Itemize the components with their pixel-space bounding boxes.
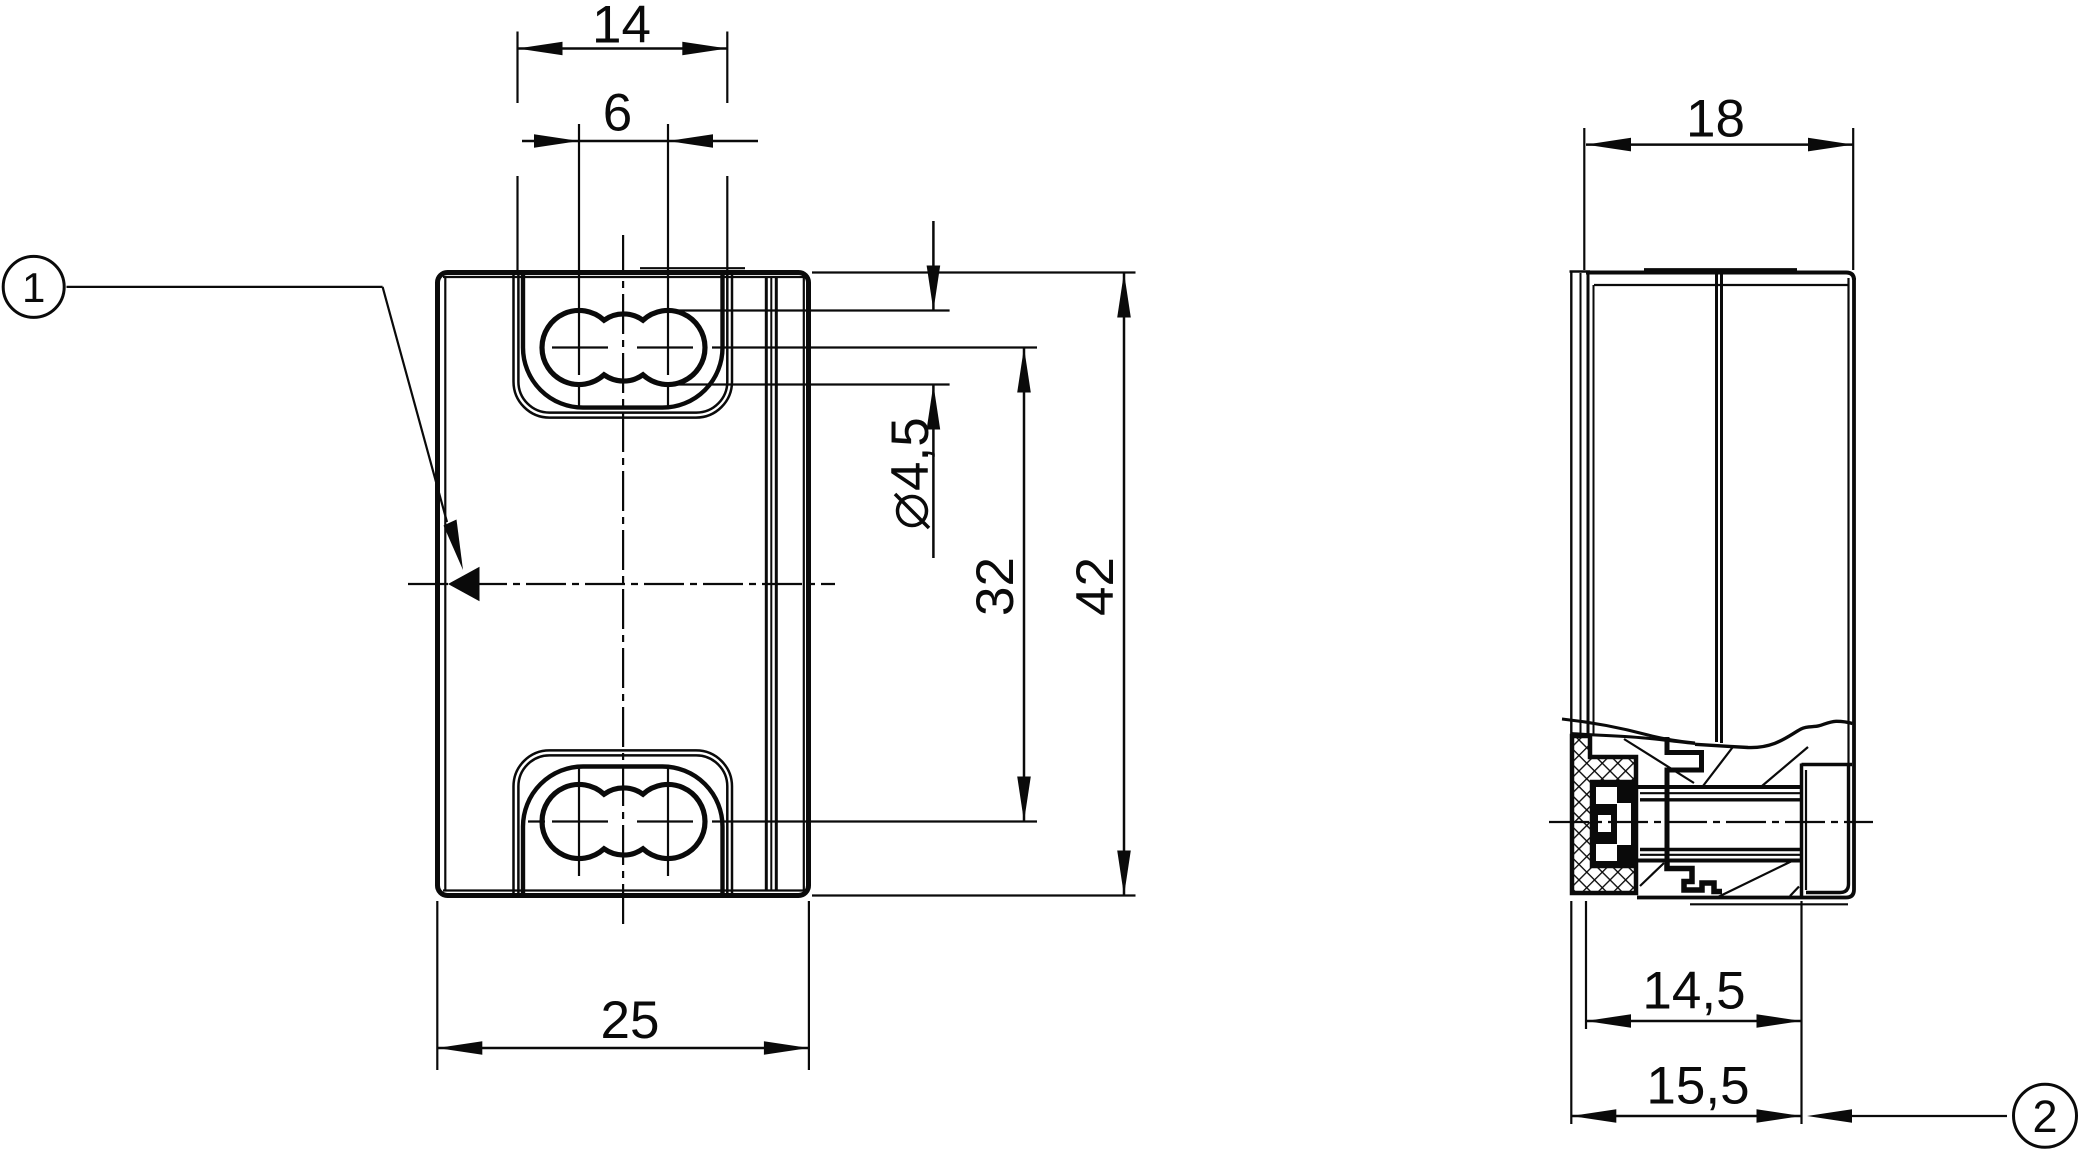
section hatch lower-right [1790,887,1799,897]
svg-text:18: 18 [1686,90,1745,149]
retaining clip meander [1667,861,1722,892]
section hatch upper-mid [1703,746,1734,787]
dim dia4,5 line upper [932,221,935,311]
callout 1 balloon [3,256,64,317]
plug lower edge [1635,859,1801,863]
dim 32 text (rotated) [966,557,1025,616]
bottom hole centerline extension to dim 32 [712,820,1037,822]
dim 42 text (rotated) [1066,557,1125,616]
front view horizontal centerline [408,583,835,585]
seal centre nub window [1598,815,1611,832]
callout 1 leader horizontal [67,286,383,288]
bottom hole axis left [578,768,580,876]
svg-text:1: 1 [22,264,45,311]
dim 25 arrows [437,1041,482,1055]
side view: cap lip top cap [1570,270,1591,272]
callout 2 leader [1845,1115,2007,1117]
dim 6 arrows (outside) [534,134,579,148]
side view: cap lip inner line [1580,273,1582,734]
bottom mounting pocket, main contour [523,767,723,896]
bottom hole centerline segment right [637,820,693,822]
bottom mounting block inner left line [1805,770,1807,890]
plug lower inner line [1640,854,1801,856]
plug upper bore line [1640,798,1801,801]
seal upper notch [1596,787,1617,804]
dim 14 ext line right [726,32,728,104]
front view: raised pocket-mouth edge on top face [640,267,745,269]
side view: right inner line [1847,278,1849,764]
dim 14,5 line [1586,1020,1802,1023]
front view: inner contour right edge [803,277,805,891]
side view: housing parting line b [1720,273,1723,744]
svg-text:2: 2 [2032,1091,2057,1142]
svg-text:14,5: 14,5 [1642,962,1745,1021]
seal lower notch [1596,844,1617,861]
bottom hole axis right [667,768,669,876]
dim dia4,5 line lower [932,385,935,559]
dim dia4,5 lower arrow (up) [927,385,941,430]
bottom mounting pocket, outer chamfer contour [514,750,733,895]
top mounting pocket, outer chamfer contour [514,273,733,418]
front view: inner contour bottom edge [443,889,805,891]
side view: left inner line [1593,285,1595,735]
under-edge shadow line [1690,903,1848,905]
top hole centerline segment right [637,346,693,348]
front view: side-profile edge line a [765,277,768,891]
seal window fill [1590,782,1632,866]
dim 15,5 ext line left [1570,901,1572,1124]
dim 25 ext lines [436,901,438,1070]
dim 32 arrows [1017,348,1031,393]
svg-text:14: 14 [592,0,651,55]
dim 6 line [522,140,758,143]
dim 32 line [1023,348,1026,822]
top hole axis right (ext line of dim 6) [667,124,669,375]
side view centerline [1549,821,1873,823]
front view: housing body outline [438,273,809,896]
hole top tangent extension line [672,309,950,311]
plug upper edge [1635,785,1801,789]
side view: left main edge [1587,273,1590,737]
side view: right outer edge and bottom [1637,278,1854,898]
break line upper strand [1562,719,1695,743]
dim 42 ext lines [812,271,1136,273]
callout 1 leader arrowhead [444,520,464,571]
side view: top edge [1586,273,1854,281]
svg-text:42: 42 [1066,557,1125,616]
bottom mounting block top edge [1802,763,1853,767]
dim 42 line [1123,273,1126,896]
hole bottom tangent extension line [672,383,950,385]
front view: inner contour top edge [443,276,805,278]
bottom mounting block left edge [1800,764,1804,898]
section hatch upper-right [1762,747,1808,786]
dim 42 arrows [1117,273,1131,318]
front view: side-profile edge line b [770,277,772,891]
front view vertical centerline [622,235,624,927]
dim 15,5 arrows [1571,1109,1616,1123]
dim 14,5 ext line left [1585,901,1587,1029]
top hole centerline extension to dim 32 [712,346,1037,348]
section hatch lower-left [1640,863,1664,886]
plug lower bore line [1640,848,1801,851]
top mounting pocket, main contour [523,273,723,408]
plug upper inner line [1640,792,1801,794]
side view: housing parting line a [1715,273,1718,743]
front view: inner contour left edge [444,277,446,891]
dim 15,5 line [1571,1115,1801,1118]
plug left stepped profile [1667,737,1702,865]
callout 2 leader arrowhead [1807,1109,1852,1123]
top hole axis left (ext line of dim 6) [578,124,580,375]
bottom mounting block inner contour [1806,766,1849,893]
svg-text:25: 25 [601,991,660,1050]
side view: top face step line [1644,268,1797,270]
dim 18 arrows [1586,138,1631,152]
bottom hole centerline stub [528,820,545,822]
dim 25 line [437,1047,809,1050]
top mounting pocket, middle chamfer contour [518,273,727,413]
bottom mounting pocket, middle chamfer contour [518,755,727,895]
side view: inner top line [1594,284,1848,286]
dim dia4,5 upper arrow (down) [927,266,941,311]
dim 14 line [518,47,728,50]
section hatch lower-mid [1718,861,1792,897]
dim 14,5 / 15,5 ext line right [1800,901,1802,1124]
callout 2 balloon [2014,1084,2077,1147]
sensing face arrow [448,567,480,601]
svg-text:15,5: 15,5 [1646,1057,1749,1116]
break line main wave [1695,721,1853,747]
dim 18 ext lines [1583,128,1585,270]
seal right relief strip [1617,803,1631,845]
dim 14 ext line left [516,32,518,104]
top slotted hole (tri-lobe) [542,310,705,384]
dim 14 arrows [518,42,563,56]
dim 18 line [1586,143,1853,146]
front view: side-profile edge line c [775,277,778,891]
dim 14,5 arrows [1586,1014,1631,1028]
break line lower strand [1571,734,1695,744]
sealing clamp profile (cross-hatched) [1572,736,1636,893]
svg-text:4,5: 4,5 [881,417,940,491]
bottom hole centerline segment left [552,820,608,822]
top hole centerline segment left [552,346,608,348]
svg-text:32: 32 [966,557,1025,616]
dim dia4,5 text (rotated, manual diameter glyph) [881,417,940,528]
section hatch upper-left [1624,739,1694,783]
bottom slotted hole (tri-lobe) [542,784,705,858]
svg-text:6: 6 [603,84,632,143]
side view: cap lip outer edge [1570,272,1572,893]
callout 1 leader diagonal [383,287,447,522]
